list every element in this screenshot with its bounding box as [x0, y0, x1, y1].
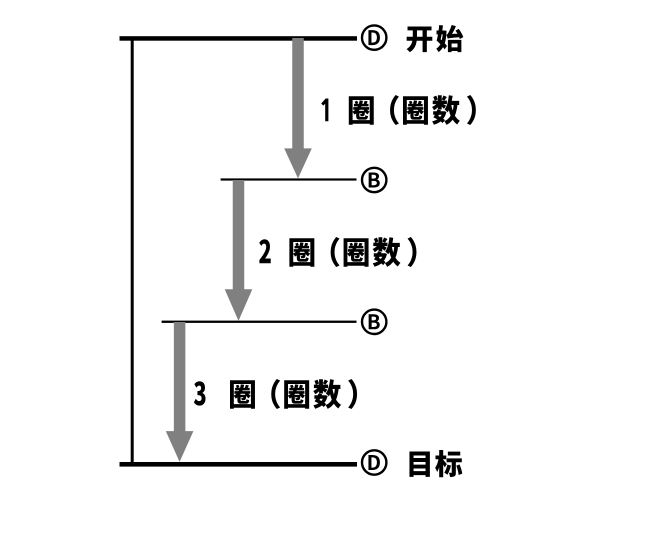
top horizontal line (start level) [120, 36, 358, 41]
circled letter B marker at y=180 [362, 168, 386, 192]
circled letter D marker at y=37.6 [362, 25, 386, 49]
circled letter B marker at y=321.8 [362, 310, 386, 334]
text 目标 (target) [409, 450, 462, 477]
middle line 2 (level B) [162, 321, 357, 323]
label: 3 圈（圈数） [194, 379, 357, 409]
gray arrow 1 (down) [284, 38, 312, 178]
text 开始 (start) [407, 25, 464, 52]
middle line 1 (level B) [221, 178, 357, 180]
gray arrow 3 (down) [166, 322, 194, 462]
bottom horizontal line (target level) [120, 462, 358, 467]
gray arrow 2 (down) [225, 180, 253, 321]
label: 2 圈（圈数） [259, 237, 416, 267]
label: 1 圈（圈数） [321, 95, 476, 125]
circled letter D marker at y=462.5 [362, 450, 386, 474]
vertical wire (left side) [131, 38, 134, 465]
